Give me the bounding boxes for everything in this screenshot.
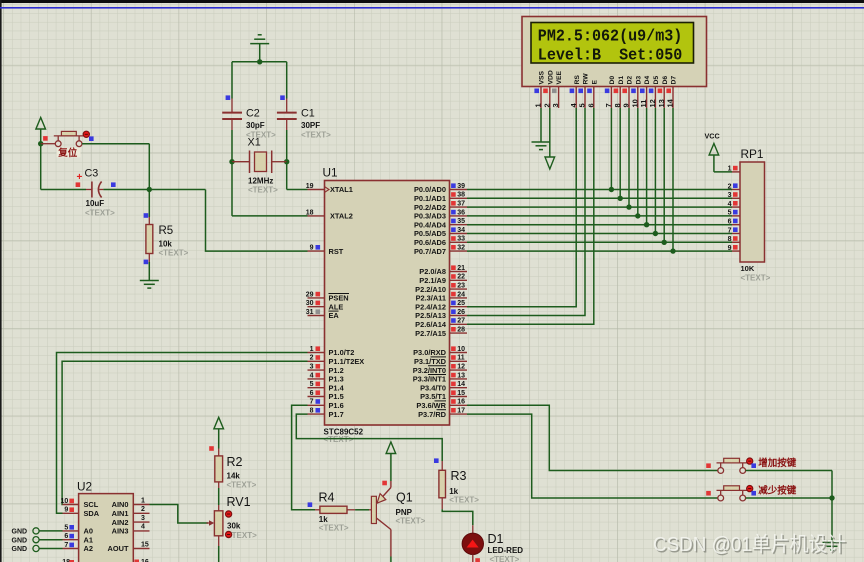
svg-text:Q1: Q1 <box>396 491 413 505</box>
wire buttons to ground <box>831 498 833 542</box>
svg-text:11: 11 <box>639 100 648 108</box>
wire P1.7 to R3 <box>296 414 442 461</box>
svg-text:CSDN @01单片机设计: CSDN @01单片机设计 <box>653 533 846 556</box>
svg-text:10K: 10K <box>741 264 755 273</box>
wire dec button right <box>746 497 832 499</box>
svg-text:VDD: VDD <box>547 70 554 84</box>
pin marker blue (C1) <box>280 95 285 100</box>
svg-text:P3.0/RXD: P3.0/RXD <box>413 348 447 357</box>
svg-text:30: 30 <box>306 300 314 307</box>
wire P0.7 bus to RP1 <box>467 250 732 252</box>
svg-text:P0.5/AD5: P0.5/AD5 <box>414 229 446 238</box>
U1 pin 31 stub <box>306 309 325 316</box>
svg-text:32: 32 <box>457 245 465 252</box>
pin marker blue (C3 right) <box>111 182 116 187</box>
svg-text:D1: D1 <box>488 532 504 546</box>
U1 pin 38 stub <box>450 192 468 199</box>
wire down to C2 <box>231 62 233 99</box>
U1 pin 16 stub <box>450 399 468 406</box>
LCD pin 4 RS <box>569 75 581 108</box>
LCD module LM016L body <box>522 17 707 87</box>
svg-text:P2.2/A10: P2.2/A10 <box>415 285 446 294</box>
wire P1.0 to U2 SDA <box>57 353 308 514</box>
U1 pin 1 stub <box>308 346 325 353</box>
terminal GND <box>12 545 63 553</box>
LCD pin 8 D1 <box>613 76 625 108</box>
junction D5/P0.5 <box>653 231 658 236</box>
wire Q1 collector down <box>390 557 392 562</box>
pin marker blue (increase 增加按键 right) <box>751 463 756 468</box>
svg-text:D0: D0 <box>609 76 616 85</box>
U1 pin 21 stub <box>450 265 468 272</box>
svg-text:12: 12 <box>648 99 657 107</box>
svg-text:<TEXT>: <TEXT> <box>248 186 278 195</box>
svg-text:1: 1 <box>141 497 145 504</box>
svg-text:D5: D5 <box>653 76 660 85</box>
svg-text:D1: D1 <box>618 76 625 85</box>
svg-text:13: 13 <box>457 372 465 379</box>
ground (R5) <box>140 280 159 282</box>
svg-text:4: 4 <box>728 201 732 208</box>
power terminal VCC (reset) <box>36 118 46 130</box>
svg-text:P0.6/AD6: P0.6/AD6 <box>414 238 446 247</box>
wire R2 bottom <box>218 482 220 488</box>
svg-text:6: 6 <box>586 103 595 107</box>
svg-text:26: 26 <box>457 309 465 316</box>
svg-text:RS: RS <box>574 75 581 85</box>
terminal GND <box>12 528 63 536</box>
wire LCD D1 down <box>619 108 621 198</box>
wire C1 to crystal <box>286 130 288 162</box>
wire P1.6 to R4 <box>292 405 315 510</box>
U2 pin 4 AIN3 <box>112 524 150 536</box>
svg-text:3: 3 <box>728 192 732 199</box>
svg-text:6: 6 <box>728 219 732 226</box>
wire LCD D3 down <box>637 108 639 216</box>
U1 pin 12 stub <box>450 364 468 371</box>
svg-text:RW: RW <box>583 73 590 85</box>
svg-text:5: 5 <box>310 381 314 388</box>
svg-text:4: 4 <box>310 372 314 379</box>
push button increase 增加按键 <box>717 458 748 473</box>
svg-text:<TEXT>: <TEXT> <box>490 555 520 562</box>
RV1 dot up <box>226 511 232 517</box>
svg-text:GND: GND <box>12 537 28 544</box>
wire C3 to R5 node <box>103 189 149 191</box>
svg-text:P3.5/T1: P3.5/T1 <box>420 392 446 401</box>
svg-text:<TEXT>: <TEXT> <box>85 209 115 218</box>
svg-text:E: E <box>591 80 598 85</box>
RP1 pin 4 <box>728 201 740 208</box>
wire to XTAL2 pin <box>232 215 308 217</box>
svg-text:7: 7 <box>64 542 68 549</box>
svg-text:15: 15 <box>457 390 465 397</box>
U1 pin 26 stub <box>450 309 468 316</box>
svg-text:22: 22 <box>457 274 465 281</box>
sheet blue border line <box>0 7 864 9</box>
svg-text:<TEXT>: <TEXT> <box>324 435 354 444</box>
wire R2 to RV1 <box>218 488 220 505</box>
pin marker blue (R3 top) <box>434 458 439 463</box>
svg-text:D6: D6 <box>662 76 669 85</box>
wire LCD D4 down <box>646 108 648 225</box>
svg-text:7: 7 <box>728 227 732 234</box>
wire VCC arrow to node <box>40 129 42 144</box>
watermark CSDN <box>653 533 848 558</box>
U1 pin 3 stub <box>308 364 325 371</box>
U2 pin 7 A2 <box>63 542 93 553</box>
wire crystal to XTAL2 <box>231 162 233 216</box>
U2 pin 6 A1 <box>63 533 93 544</box>
U1 pin 29 stub <box>306 291 325 298</box>
U1 pin 10 stub <box>450 346 468 353</box>
svg-text:C1: C1 <box>301 108 315 120</box>
pin marker blue (R4 left) <box>308 502 313 507</box>
svg-text:7: 7 <box>310 399 314 406</box>
U1 pin 30 stub <box>306 300 325 307</box>
junction RST node <box>147 187 152 192</box>
LCD pin 10 D3 <box>630 76 642 108</box>
svg-text:2: 2 <box>542 103 551 107</box>
svg-text:R4: R4 <box>319 491 335 505</box>
pin marker blue (C2) <box>226 95 231 100</box>
wire to RST corner <box>149 189 205 191</box>
svg-text:AOUT: AOUT <box>108 544 129 553</box>
power terminal VCC (Q1) <box>386 442 396 454</box>
wire C2 to crystal <box>231 130 233 162</box>
U1 pin 23 stub <box>450 283 468 290</box>
svg-text:16: 16 <box>457 399 465 406</box>
svg-text:VCC: VCC <box>705 132 720 141</box>
svg-text:P1.3: P1.3 <box>329 375 344 384</box>
U2 pin 2 AIN1 <box>112 506 150 518</box>
svg-text:AIN1: AIN1 <box>112 509 129 518</box>
svg-text:30PF: 30PF <box>301 121 320 130</box>
U1 pin 39 stub <box>450 183 468 190</box>
svg-text:P3.3/INT1: P3.3/INT1 <box>413 375 446 384</box>
svg-text:P1.0/T2: P1.0/T2 <box>329 348 355 357</box>
pin marker red (decrease 减少按键 left) <box>706 491 711 496</box>
svg-text:P0.2/AD2: P0.2/AD2 <box>414 203 446 212</box>
ground (buttons) <box>823 542 842 544</box>
wire LCD RW to U1 <box>467 108 585 316</box>
junction D4/P0.4 <box>644 222 649 227</box>
svg-text:36: 36 <box>457 209 465 216</box>
power terminal VCC (RP1) <box>705 132 733 172</box>
svg-text:8: 8 <box>728 236 732 243</box>
svg-text:17: 17 <box>457 408 465 415</box>
svg-text:RST: RST <box>329 247 344 256</box>
wire R5 to ground <box>148 262 150 280</box>
pin marker red (C3 left) <box>76 182 81 187</box>
svg-text:C2: C2 <box>246 108 260 120</box>
wire inc button right <box>746 470 832 472</box>
R3 top lead <box>441 461 443 470</box>
svg-text:9: 9 <box>310 245 314 252</box>
svg-text:减少按键: 减少按键 <box>758 484 797 496</box>
U2 pin 9 SDA <box>63 507 100 518</box>
svg-text:8: 8 <box>613 103 622 107</box>
push button 复位 (reset) <box>54 131 84 146</box>
U1 pin 5 stub <box>308 381 325 388</box>
junction D3/P0.3 <box>635 213 640 218</box>
svg-text:P2.4/A12: P2.4/A12 <box>415 302 446 311</box>
junction D7/P0.7 <box>670 248 675 253</box>
wire P0.6 bus to RP1 <box>467 241 732 243</box>
svg-text:P0.3/AD3: P0.3/AD3 <box>414 212 446 221</box>
svg-text:P3.1/TXD: P3.1/TXD <box>414 357 447 366</box>
wire to C3 left <box>41 189 86 191</box>
svg-text:39: 39 <box>457 183 465 190</box>
power terminal VCC (R2) <box>214 417 224 429</box>
svg-text:31: 31 <box>306 309 314 316</box>
svg-text:1: 1 <box>310 346 314 353</box>
svg-text:8: 8 <box>310 408 314 415</box>
svg-text:SCL: SCL <box>84 500 99 509</box>
U1 pin 34 stub <box>450 227 468 234</box>
RP1 pin 3 <box>728 192 740 199</box>
ground (LCD VSS) <box>532 141 551 143</box>
wire P0.2 bus to RP1 <box>467 206 732 208</box>
svg-text:P0.1/AD1: P0.1/AD1 <box>414 194 446 203</box>
pin marker red (increase 增加按键 left) <box>706 463 711 468</box>
svg-text:VSS: VSS <box>539 70 546 84</box>
op-amp U2 ADC body <box>77 479 133 562</box>
svg-text:P1.1/T2EX: P1.1/T2EX <box>329 357 365 366</box>
svg-text:3: 3 <box>551 103 560 107</box>
wire P3.6 to button inc <box>467 405 718 470</box>
wire arrow to R2 <box>218 429 220 449</box>
RP1 pin 8 <box>728 236 740 243</box>
LCD pin 9 D2 <box>622 76 634 108</box>
junction reset-node <box>38 141 43 146</box>
svg-text:D7: D7 <box>671 76 678 85</box>
LCD pin 6 E <box>586 80 598 109</box>
LCD pin 5 RW <box>578 73 590 108</box>
svg-text:P0.7/AD7: P0.7/AD7 <box>414 247 446 256</box>
svg-text:A2: A2 <box>84 544 93 553</box>
svg-text:10: 10 <box>457 346 465 353</box>
svg-text:R2: R2 <box>227 455 243 469</box>
wire down to C1 <box>286 62 288 99</box>
svg-text:D2: D2 <box>627 76 634 85</box>
U1 pin 24 stub <box>450 291 468 298</box>
wire down to dec node <box>831 471 833 499</box>
U1 pin 37 stub <box>450 201 468 208</box>
svg-text:RP1: RP1 <box>741 147 764 161</box>
op-amp U1 microcontroller STC89C52 body <box>323 166 450 445</box>
svg-text:VEE: VEE <box>556 70 563 84</box>
svg-text:10: 10 <box>630 99 639 107</box>
junction D2/P0.2 <box>626 204 631 209</box>
svg-text:SDA: SDA <box>84 509 100 518</box>
svg-text:GND: GND <box>12 529 28 536</box>
svg-text:<TEXT>: <TEXT> <box>301 130 331 139</box>
LCD pin 1 VSS <box>534 70 546 108</box>
label 复位 <box>57 148 81 158</box>
wire R4 to Q1 base <box>355 509 369 511</box>
ground (crystal top) <box>258 34 262 36</box>
svg-text:30pF: 30pF <box>246 121 265 130</box>
push button decrease 减少按键 <box>717 486 748 501</box>
svg-text:U2: U2 <box>77 479 92 493</box>
sheet top border <box>0 0 864 3</box>
svg-text:<TEXT>: <TEXT> <box>396 517 426 526</box>
wire VSS to ground <box>540 108 542 142</box>
wire ground stem <box>259 44 261 62</box>
capacitor C3 <box>86 182 103 198</box>
svg-text:37: 37 <box>457 201 465 208</box>
svg-text:AIN3: AIN3 <box>112 527 129 536</box>
svg-text:2: 2 <box>728 183 732 190</box>
wire LCD RS to U1 <box>467 108 576 307</box>
RP1 pin 5 <box>728 210 740 217</box>
svg-text:GND: GND <box>12 546 28 553</box>
svg-text:10k: 10k <box>159 240 173 249</box>
pin marker blue (R5 top) <box>144 213 149 218</box>
pin marker blue (decrease 减少按键 right) <box>751 491 756 496</box>
LCD pin 12 D5 <box>648 76 660 108</box>
wire to RST pin <box>206 190 308 252</box>
svg-text:AIN2: AIN2 <box>112 518 129 527</box>
svg-text:7: 7 <box>604 103 613 107</box>
svg-text:14: 14 <box>666 98 675 107</box>
RP1 pin 2 <box>728 183 740 190</box>
wire P0.5 bus to RP1 <box>467 233 732 235</box>
svg-text:R3: R3 <box>451 469 467 483</box>
U2 pin 3 AIN2 <box>112 515 150 527</box>
capacitor C2 <box>222 99 242 131</box>
RP1 pin 7 <box>728 227 740 234</box>
svg-text:ALE: ALE <box>329 302 344 311</box>
junction crystal top <box>257 59 262 64</box>
U2 pin 10 SCL <box>61 498 99 509</box>
wire P3.7 to button dec <box>467 414 718 498</box>
wire P0.4 bus to RP1 <box>467 224 732 226</box>
wire node to R5 <box>148 190 150 218</box>
svg-text:9: 9 <box>728 245 732 252</box>
wire down to C3 <box>40 144 42 190</box>
U1 pin 36 stub <box>450 209 468 216</box>
U1 pin 13 stub <box>450 372 468 379</box>
pin marker red (R2 top) <box>209 446 214 451</box>
pin marker red (D1 bottom) <box>475 558 480 562</box>
svg-text:13: 13 <box>657 99 666 107</box>
wire P1.1 to U2 SCL <box>62 361 307 504</box>
U1 pin 2 stub <box>308 355 325 362</box>
svg-text:14: 14 <box>457 381 465 388</box>
svg-text:11: 11 <box>457 355 465 362</box>
U1 pin 35 stub <box>450 218 468 225</box>
svg-text:<TEXT>: <TEXT> <box>319 523 349 532</box>
resistor R5 <box>146 225 153 254</box>
wire cap top rail <box>232 61 287 63</box>
RV1 dot down <box>226 531 232 537</box>
svg-text:PM2.5:062(u9/m3): PM2.5:062(u9/m3) <box>538 27 683 46</box>
RP1 pin 9 <box>728 245 740 252</box>
svg-text:30k: 30k <box>227 521 241 530</box>
R4 left lead <box>315 509 320 511</box>
svg-text:XTAL2: XTAL2 <box>330 212 353 221</box>
svg-text:5: 5 <box>728 210 732 217</box>
svg-text:35: 35 <box>457 218 465 225</box>
svg-text:24: 24 <box>457 291 465 298</box>
svg-text:C3: C3 <box>85 167 99 179</box>
svg-text:6: 6 <box>64 533 68 540</box>
svg-text:27: 27 <box>457 318 465 325</box>
svg-text:Level:B Set:050: Level:B Set:050 <box>538 47 683 66</box>
svg-text:P0.0/AD0: P0.0/AD0 <box>414 185 446 194</box>
pin marker blue (button right) <box>89 136 94 141</box>
svg-text:12MHz: 12MHz <box>248 177 273 186</box>
RP1 pin 6 <box>728 219 740 226</box>
svg-text:PSEN: PSEN <box>329 294 349 303</box>
svg-text:38: 38 <box>457 192 465 199</box>
svg-text:12: 12 <box>457 364 465 371</box>
svg-text:P1.7: P1.7 <box>329 410 344 419</box>
U2 clipped bottom pin 8 <box>62 559 74 562</box>
svg-text:A0: A0 <box>84 527 93 536</box>
svg-text:34: 34 <box>457 227 465 234</box>
pin marker red (button left) <box>43 136 48 141</box>
svg-text:P1.4: P1.4 <box>329 383 345 392</box>
svg-text:P0.4/AD4: P0.4/AD4 <box>414 220 447 229</box>
svg-text:EA: EA <box>329 311 340 320</box>
U2 pin 15 AOUT <box>108 541 150 553</box>
U1 pin 8 stub <box>308 408 325 415</box>
U1 pin 28 stub <box>450 327 468 334</box>
svg-text:3: 3 <box>310 364 314 371</box>
svg-text:D4: D4 <box>644 76 651 85</box>
R3 bottom lead <box>441 498 443 510</box>
svg-text:P2.1/A9: P2.1/A9 <box>419 276 446 285</box>
wire P0.1 bus to RP1 <box>467 197 732 199</box>
power terminal down (LCD VDD) <box>545 157 555 169</box>
U1 pin 9 stub <box>308 245 325 252</box>
U1 pin 7 stub <box>308 399 325 406</box>
svg-text:P2.7/A15: P2.7/A15 <box>415 329 446 338</box>
svg-text:X1: X1 <box>248 137 261 149</box>
U1 pin 14 stub <box>450 381 468 388</box>
potentiometer RV1 <box>207 505 223 546</box>
wire LCD D0 down <box>610 108 612 190</box>
svg-text:14k: 14k <box>227 472 241 481</box>
resistor R3 <box>439 470 446 498</box>
LCD pin 14 D7 <box>666 76 678 108</box>
svg-text:P2.0/A8: P2.0/A8 <box>419 267 446 276</box>
U1 pin 6 stub <box>308 390 325 397</box>
U1 pin 32 stub <box>450 245 468 252</box>
U1 pin 25 stub <box>450 300 468 307</box>
svg-text:9: 9 <box>622 103 631 107</box>
U1 pin 27 stub <box>450 318 468 325</box>
U1 pin 11 stub <box>450 355 468 362</box>
wire AIN0 to RV1 wiper <box>150 505 209 524</box>
junction D1/P0.1 <box>618 196 623 201</box>
wire to button left contact <box>41 143 56 145</box>
svg-text:P2.3/A11: P2.3/A11 <box>416 294 446 303</box>
U1 pin names right <box>413 185 447 419</box>
wire P0.0 bus to RP1 <box>467 189 732 191</box>
wire VDD to power <box>549 108 551 157</box>
U2 pin 5 A0 <box>63 524 93 535</box>
svg-text:3: 3 <box>141 515 145 522</box>
svg-text:2: 2 <box>310 355 314 362</box>
LCD pin 11 D4 <box>639 76 651 108</box>
svg-text:4: 4 <box>141 524 145 531</box>
svg-text:R5: R5 <box>159 225 174 237</box>
svg-text:<TEXT>: <TEXT> <box>159 249 189 258</box>
